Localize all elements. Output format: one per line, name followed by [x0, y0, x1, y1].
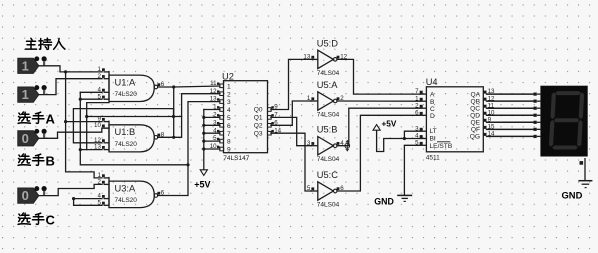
inverter U5:D (74LS04) [303, 38, 347, 77]
svg-text:3: 3 [227, 99, 231, 106]
wire outputs tie vertical [173, 87, 175, 137]
wire LE to GND [404, 144, 419, 146]
logic state player A (value 0) [18, 129, 47, 146]
wire vertical x86 mid [87, 102, 109, 104]
wire U2 pin6 stub [204, 124, 220, 126]
svg-text:1: 1 [22, 58, 29, 73]
inverter U5:C (74LS04) [307, 170, 344, 209]
wire U5:A out to U4 B [337, 100, 420, 102]
svg-text:Q0: Q0 [254, 107, 263, 114]
svg-text:U5:B: U5:B [317, 125, 338, 135]
svg-text:74LS04: 74LS04 [317, 70, 340, 77]
wire U2 pin9 stub [204, 148, 220, 150]
svg-text:5: 5 [227, 115, 231, 122]
svg-text:QB: QB [470, 98, 480, 105]
svg-text:BI: BI [430, 136, 436, 143]
node junction x86 row116 [85, 115, 88, 118]
svg-text:74LS20: 74LS20 [115, 197, 138, 204]
wire U2 pin7 stub [204, 132, 220, 134]
svg-text:U5:C: U5:C [317, 170, 338, 180]
wire display common to ground [584, 158, 586, 165]
wire LT feed [404, 131, 419, 138]
wire link 108 to 116 [173, 109, 175, 117]
svg-text:B: B [430, 99, 435, 106]
svg-text:74LS04: 74LS04 [317, 202, 340, 209]
svg-text:1: 1 [22, 87, 29, 102]
svg-text:QF: QF [471, 127, 480, 134]
wire U2 pin5 stub [204, 116, 220, 118]
svg-text:QA: QA [470, 91, 480, 98]
svg-text:GND: GND [562, 190, 583, 201]
ground GND (near U4) [374, 145, 412, 206]
svg-text:10: 10 [94, 122, 101, 129]
node junction bus row9 [202, 147, 205, 150]
svg-text:C: C [430, 106, 435, 113]
wire U5:C out to U4 D [337, 115, 420, 191]
svg-text:GND: GND [374, 197, 394, 207]
logic state host 2 (value 1) [18, 85, 47, 102]
wire U5:B out to U4 C [337, 108, 420, 146]
junction marker on U5:B output [345, 141, 350, 151]
svg-text:+5V: +5V [382, 119, 397, 128]
wire U2 pin8 stub [204, 140, 220, 142]
wire U1:A pin5 feed [80, 98, 102, 100]
svg-text:74LS20: 74LS20 [115, 91, 138, 98]
svg-text:74LS20: 74LS20 [115, 141, 138, 148]
svg-text:Q3: Q3 [254, 130, 263, 137]
wire Q0 to U5:D [271, 59, 312, 109]
node junction 108-116 link [172, 115, 175, 118]
wire Q9 to display [487, 121, 535, 123]
wire Q14 to display [487, 135, 535, 137]
label 选手C (player C) [18, 213, 55, 228]
wire U5:D out to U4 A [337, 59, 420, 94]
node junction x80 pin5 [79, 98, 82, 101]
svg-text:QD: QD [470, 112, 480, 119]
svg-text:2: 2 [227, 91, 231, 98]
wire U3:A out to U2 pin13 [158, 102, 220, 196]
svg-text:QG: QG [470, 134, 480, 141]
svg-text:QE: QE [470, 120, 480, 127]
power +5V (near U4, arrow up) [373, 119, 397, 151]
node junction bus to U1:B pin9 [64, 120, 67, 123]
wire Q13 to display [487, 93, 535, 95]
svg-text:0: 0 [22, 188, 29, 203]
NAND gate U3:A (74LS20) [97, 172, 164, 208]
node junction x80 pin13 [79, 148, 82, 151]
NAND gate U1:A (74LS20) [97, 66, 164, 102]
ground GND (below display) [562, 165, 593, 201]
label 主持人 (host) [26, 38, 65, 49]
svg-text:U4: U4 [426, 77, 438, 87]
wire Q15 to display [487, 128, 535, 130]
svg-text:7: 7 [227, 131, 231, 138]
svg-text:U5:A: U5:A [317, 80, 338, 90]
svg-text:74LS04: 74LS04 [317, 156, 340, 163]
svg-text:QC: QC [470, 105, 480, 112]
svg-text:74LS04: 74LS04 [317, 112, 340, 119]
wire tag2 to U1:A pin2 [39, 79, 102, 95]
wire U1:B out to U2 pin12 [158, 94, 220, 138]
wire Q10 to display [487, 114, 535, 116]
svg-text:U1:B: U1:B [115, 127, 136, 137]
svg-text:6: 6 [227, 123, 231, 130]
wire +5V to LT/BI [377, 139, 420, 152]
svg-text:D: D [430, 113, 435, 120]
wire tag1 to U1:A pin1 [39, 66, 102, 72]
svg-text:U3:A: U3:A [115, 183, 136, 193]
svg-text:1: 1 [227, 83, 231, 90]
node junction x188 row164 [186, 163, 189, 166]
encoder U2 74LS147 [210, 71, 282, 162]
node junction LT tap [403, 137, 406, 140]
svg-text:4511: 4511 [426, 155, 440, 162]
wire U2 pin4 stub [204, 109, 220, 111]
wire vertical x86 drop [87, 103, 182, 117]
inverter U5:B (74LS04) [307, 125, 344, 164]
wire U1:A pin4 feed [80, 91, 102, 93]
label 选手B (player B) [18, 154, 55, 169]
inverter U5:A (74LS04) [307, 80, 344, 119]
node junction bus row6 [202, 124, 205, 127]
wire Q3 to U5:C [271, 133, 312, 191]
decoder/driver U4 4511 [415, 77, 495, 162]
wire Q1 to U5:B [271, 117, 312, 145]
label 选手A (player A) [18, 112, 55, 127]
node junction bus row7 [202, 132, 205, 135]
svg-text:B: B [46, 154, 55, 169]
wire row 108 to pin12 link [73, 109, 173, 143]
wire Q12 to display [487, 100, 535, 102]
power +5V (below U2, arrow down) [194, 149, 210, 190]
wire Q11 to display [487, 107, 535, 109]
wire Q2 to U5:A [271, 101, 312, 125]
svg-text:U1:A: U1:A [115, 77, 136, 87]
node junction tag1 bus [64, 70, 67, 73]
svg-text:LE/STB: LE/STB [430, 143, 453, 150]
wire vertical x80 long [80, 92, 188, 165]
svg-text:A: A [430, 92, 435, 99]
wire branch to U1:B pin13 [80, 149, 102, 151]
wire tag A to U1:B pin10 [39, 128, 109, 138]
svg-text:A: A [46, 112, 56, 127]
node junction bus row8 [202, 140, 205, 143]
svg-text:U2: U2 [222, 71, 234, 81]
svg-text:U5:D: U5:D [317, 38, 338, 48]
svg-text:Q1: Q1 [254, 115, 263, 122]
logic state host 1 (value 1) [18, 56, 47, 73]
svg-text:4: 4 [227, 107, 231, 114]
svg-text:74LS147: 74LS147 [223, 155, 249, 162]
svg-text:8: 8 [227, 139, 231, 146]
wire U2 unused input bus [203, 110, 205, 150]
svg-text:0: 0 [22, 131, 29, 146]
7-segment display [534, 86, 588, 165]
wire tag B bend [39, 184, 102, 195]
svg-text:9: 9 [227, 147, 231, 154]
NAND gate U1:B (74LS20) [94, 116, 165, 152]
wire branch to U1:B pin9 [66, 121, 102, 123]
wire U3:A pin4 feed [74, 198, 102, 200]
wire U1:A out to U2 pin11 [158, 86, 220, 87]
svg-text:LT: LT [430, 128, 437, 135]
svg-text:Q2: Q2 [254, 123, 263, 130]
node junction pin4-pin5 [72, 197, 75, 200]
wire U3:A pin5 feed [74, 199, 102, 206]
node junction U1:B out [172, 136, 175, 139]
svg-text:C: C [46, 213, 56, 228]
wire vertical x86 lower [86, 117, 88, 150]
node junction outputs tie [172, 85, 175, 88]
wire host bus vertical [66, 72, 102, 178]
svg-text:+5V: +5V [194, 180, 210, 190]
node junction bus row5 [202, 116, 205, 119]
logic state player B (value 0) [18, 186, 47, 203]
